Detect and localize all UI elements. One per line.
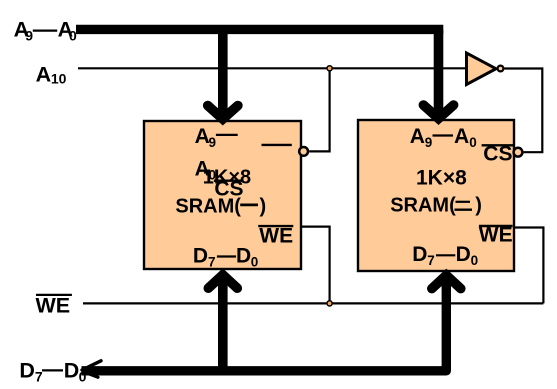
wire junction to SRAM1 CS pin	[309, 68, 329, 151]
svg-text:A: A	[454, 125, 469, 148]
SRAM1 name label SRAM(1)	[175, 196, 266, 218]
wire A10 to inverter input	[78, 67, 466, 69]
SRAM1 chip body	[144, 121, 301, 269]
svg-text:D: D	[236, 244, 251, 267]
wire inverter output to SRAM2 CS pin	[504, 69, 542, 153]
SRAM2 pin label A9-A0	[410, 125, 477, 150]
junction node on WE wire	[327, 301, 332, 306]
label D7-D0 (bottom-left net name)	[19, 358, 86, 384]
svg-text:0: 0	[69, 28, 77, 44]
SRAM2 pin label D7-D0	[412, 243, 478, 268]
junction node on A10 wire	[327, 66, 332, 71]
SRAM2 pin label CS (with overline)	[482, 143, 513, 166]
SRAM2 pin label WE (with overline)	[479, 224, 513, 247]
svg-text:D: D	[412, 243, 427, 266]
svg-text:WE: WE	[259, 225, 293, 248]
svg-text:A: A	[195, 125, 210, 148]
svg-text:A: A	[410, 125, 425, 148]
svg-text:SRAM(: SRAM(	[175, 196, 241, 218]
address bus drop wire to SRAM2	[434, 29, 444, 113]
wire WE horizontal	[83, 302, 543, 304]
svg-text:D: D	[456, 243, 471, 266]
svg-text:7: 7	[427, 253, 435, 268]
svg-text:9: 9	[209, 135, 217, 150]
svg-text:D: D	[64, 358, 80, 382]
address bus drop wire to SRAM1	[218, 29, 228, 114]
svg-text:7: 7	[208, 254, 216, 269]
data bus arrowhead toward D7-D0 label	[82, 361, 101, 377]
SRAM2 CS bubble	[514, 148, 523, 157]
SRAM2 chip body	[358, 120, 514, 271]
SRAM1 pin label WE (with overline)	[258, 225, 293, 248]
SRAM1 pin label D7-D0	[193, 244, 258, 269]
SRAM1 pin label A0 (line 2)	[195, 157, 216, 182]
SRAM1 CS bubble	[299, 147, 308, 156]
svg-text:0: 0	[471, 253, 479, 268]
label A9-A0 (top-left net name)	[14, 17, 77, 43]
label A10 (net name)	[36, 62, 67, 86]
svg-text:1K×8: 1K×8	[416, 167, 467, 190]
svg-text:7: 7	[35, 368, 43, 384]
svg-text:): )	[475, 195, 482, 217]
svg-text:SRAM(: SRAM(	[390, 195, 456, 217]
data bus D7-D0 (thick horizontal wire)	[82, 279, 447, 371]
svg-text:D: D	[19, 358, 35, 382]
SRAM1 stray dash near CS pin	[262, 144, 292, 146]
wire junction up to SRAM1 WE pin	[301, 227, 330, 304]
arrowhead into SRAM1 address port	[208, 106, 238, 120]
svg-text:0: 0	[251, 254, 259, 269]
svg-text:): )	[260, 196, 267, 218]
SRAM1 pin label A9- (line 1)	[195, 125, 238, 150]
arrowhead into SRAM2 address port	[423, 105, 453, 119]
svg-text:WE: WE	[36, 294, 71, 318]
svg-text:0: 0	[469, 135, 477, 150]
arrowhead into SRAM2 data port	[432, 275, 461, 288]
svg-text:D: D	[193, 244, 208, 267]
inverter U1 (triangle)	[467, 53, 497, 85]
svg-text:A: A	[36, 62, 52, 86]
wire WE up to SRAM2 WE pin	[514, 228, 543, 304]
address bus A9-A0 (thick horizontal wire)	[76, 25, 443, 34]
SRAM2 name label SRAM(2)	[390, 195, 482, 217]
svg-text:10: 10	[51, 70, 67, 86]
svg-text:9: 9	[25, 28, 33, 44]
svg-text:9: 9	[425, 135, 433, 150]
svg-text:WE: WE	[479, 224, 513, 247]
svg-text:CS: CS	[483, 143, 512, 166]
inverter output bubble	[498, 66, 504, 72]
arrowhead into SRAM1 data port	[208, 275, 237, 288]
data bus riser to SRAM1	[218, 279, 228, 371]
label WE (outside, with overline)	[36, 294, 72, 318]
SRAM1 pin label CS (with overline)	[214, 178, 244, 201]
